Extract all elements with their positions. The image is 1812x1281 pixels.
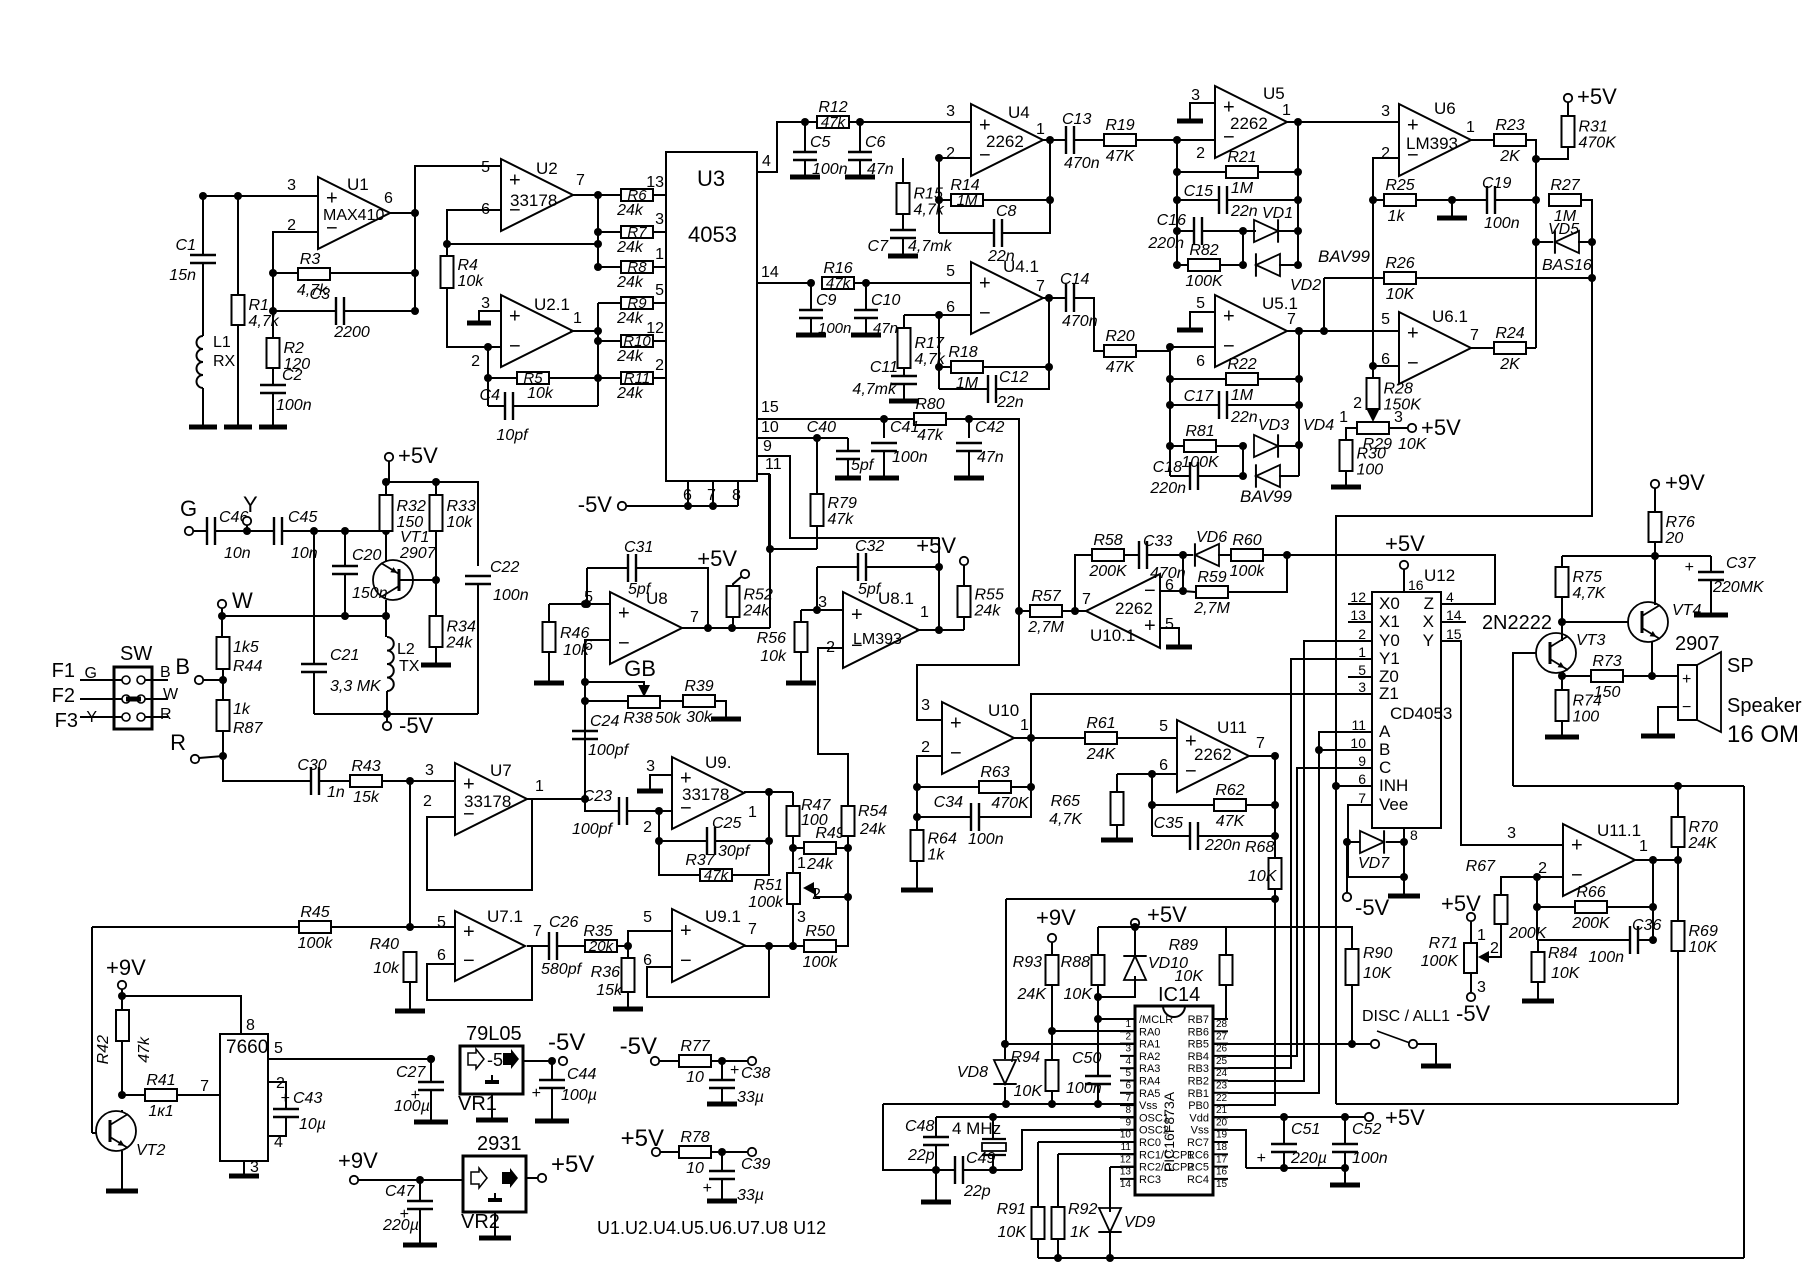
junction — [443, 240, 451, 248]
svg-text:5: 5 — [1358, 662, 1366, 678]
wire — [1417, 199, 1487, 201]
svg-text:+9V: +9V — [1665, 470, 1705, 495]
wire — [992, 1117, 994, 1139]
svg-text:U12: U12 — [1424, 566, 1455, 585]
wire VT3 base — [1513, 653, 1536, 786]
wire — [121, 1041, 123, 1095]
svg-text:7660: 7660 — [226, 1037, 268, 1058]
wire — [883, 419, 885, 438]
wire to U6.1 pin5 — [1324, 330, 1399, 332]
wire — [385, 616, 387, 637]
junction — [1131, 923, 1139, 931]
svg-text:3: 3 — [1394, 409, 1403, 426]
resistor R61 — [1085, 732, 1117, 744]
svg-text:U2.1: U2.1 — [534, 295, 570, 314]
capacitor C39 — [709, 1170, 735, 1172]
svg-text:Vee: Vee — [1379, 795, 1408, 814]
wire — [1118, 737, 1177, 739]
wire stub PB0 — [1213, 1104, 1228, 1106]
svg-text:R78: R78 — [680, 1129, 709, 1146]
terminal +5V R55 — [960, 557, 968, 565]
junction — [581, 795, 589, 803]
wire — [1063, 610, 1087, 612]
junction — [1166, 442, 1174, 450]
wire U4.1 inverting — [904, 314, 971, 316]
svg-text:2: 2 — [643, 819, 652, 836]
wire — [1259, 171, 1298, 173]
junction — [1027, 783, 1035, 791]
svg-text:50k: 50k — [655, 710, 682, 727]
diode VD8 — [994, 1060, 1016, 1084]
svg-text:3: 3 — [1358, 679, 1366, 695]
wire — [618, 945, 628, 947]
svg-text:3: 3 — [425, 762, 434, 779]
capacitor C45 — [273, 517, 275, 545]
svg-text:24K: 24K — [1017, 986, 1048, 1003]
wiper arrow R28/R29 — [1372, 409, 1374, 418]
capacitor C5 — [793, 151, 817, 153]
junction — [341, 612, 349, 620]
wire — [199, 756, 223, 758]
wire stub RB2 — [1213, 1080, 1228, 1082]
wire — [330, 272, 415, 274]
svg-text:1: 1 — [797, 855, 806, 872]
wire — [344, 310, 415, 312]
ground — [796, 333, 826, 338]
wire — [121, 1110, 123, 1112]
svg-text:27: 27 — [1216, 1031, 1228, 1042]
svg-text:+5V: +5V — [1385, 1105, 1425, 1130]
diode VD3 — [1254, 435, 1278, 457]
wire — [1403, 842, 1405, 877]
svg-text:R1: R1 — [249, 297, 269, 314]
svg-text:Vss: Vss — [1191, 1125, 1210, 1137]
svg-text:33178: 33178 — [682, 785, 729, 804]
junction — [427, 1055, 435, 1063]
wire — [202, 196, 204, 255]
svg-text:R76: R76 — [1666, 514, 1695, 531]
junction — [807, 279, 815, 287]
svg-text:R82: R82 — [1189, 242, 1218, 259]
svg-text:100n: 100n — [1352, 1150, 1388, 1167]
svg-text:15k: 15k — [596, 982, 623, 999]
resistor R14 — [951, 194, 983, 206]
wire — [721, 1152, 723, 1171]
svg-text:10: 10 — [686, 1069, 704, 1086]
capacitor C4 — [504, 392, 506, 420]
svg-text:2: 2 — [946, 145, 955, 162]
capacitor C17 — [1218, 391, 1220, 419]
wire U8 output — [682, 627, 770, 629]
svg-text:R67: R67 — [1466, 858, 1496, 875]
wire U12 A — [1319, 732, 1372, 750]
svg-text:G: G — [180, 496, 197, 521]
capacitor C40 — [836, 450, 860, 452]
wire U12 Z0 — [1348, 676, 1372, 678]
svg-text:2K: 2K — [1499, 356, 1521, 373]
wire — [715, 701, 726, 718]
wire — [1218, 554, 1231, 556]
wire — [1097, 1019, 1099, 1076]
ground — [224, 425, 252, 430]
terminal +9V VT4 — [1651, 480, 1659, 488]
wire stub Vss — [1120, 1104, 1135, 1106]
wire — [1097, 985, 1099, 1019]
wire U9 output — [744, 791, 793, 793]
svg-text:1M: 1M — [1231, 180, 1254, 197]
wire — [383, 780, 455, 782]
resistor R58 — [1092, 549, 1124, 561]
svg-text:R66: R66 — [1576, 884, 1605, 901]
svg-text:DISC / ALL1: DISC / ALL1 — [1362, 1008, 1450, 1025]
wire — [221, 608, 223, 637]
wire — [712, 1060, 748, 1062]
wire R60 to U12 Z — [1264, 555, 1495, 604]
junction — [218, 612, 226, 620]
svg-text:C27: C27 — [396, 1064, 426, 1081]
junction — [789, 844, 797, 852]
svg-text:SP: SP — [1727, 655, 1754, 677]
svg-text:C52: C52 — [1352, 1121, 1381, 1138]
wire — [1177, 171, 1225, 173]
svg-text:20: 20 — [1665, 530, 1684, 547]
junction — [1166, 401, 1174, 409]
wire U1 output — [390, 212, 415, 214]
wire — [585, 799, 619, 811]
junction — [199, 192, 207, 200]
wire — [817, 566, 858, 568]
ground — [889, 399, 919, 404]
svg-text:R56: R56 — [757, 630, 786, 647]
svg-text:26: 26 — [1216, 1044, 1228, 1055]
junction — [624, 942, 632, 950]
resistor R32 — [380, 495, 393, 531]
wire — [1345, 471, 1347, 486]
wire — [1074, 298, 1103, 351]
capacitor C48 — [923, 1136, 949, 1138]
wire R23 to column — [1527, 140, 1536, 348]
svg-text:C23: C23 — [583, 788, 612, 805]
junction — [1046, 196, 1054, 204]
junction — [1283, 551, 1291, 559]
capacitor C3 — [335, 297, 337, 325]
junction — [1648, 672, 1656, 680]
wire — [732, 617, 734, 628]
capacitor C19 — [1486, 186, 1488, 214]
wire — [410, 926, 455, 928]
wire right loop — [1743, 786, 1745, 1258]
svg-text:100K: 100K — [1185, 273, 1224, 290]
wire U5.1 inverting — [1170, 346, 1215, 348]
svg-text:3: 3 — [646, 758, 655, 775]
svg-text:C5: C5 — [810, 134, 831, 151]
ground — [479, 1236, 511, 1241]
capacitor C41 — [871, 442, 897, 444]
wire — [658, 811, 660, 841]
svg-text:X1: X1 — [1379, 612, 1400, 631]
resistor R64 — [911, 830, 924, 861]
wire VT2 emitter — [121, 1151, 123, 1190]
junction — [1532, 238, 1540, 246]
svg-text:24k: 24k — [446, 635, 474, 652]
junction — [243, 527, 251, 535]
svg-text:100n: 100n — [276, 397, 312, 414]
ground — [786, 681, 816, 686]
svg-text:C21: C21 — [330, 647, 359, 664]
wire — [847, 459, 849, 477]
junction — [432, 576, 440, 584]
svg-text:24k: 24k — [616, 274, 644, 291]
svg-text:RB7: RB7 — [1188, 1014, 1209, 1026]
wire +5V row to R90 — [1226, 927, 1352, 949]
svg-text:C34: C34 — [934, 794, 963, 811]
wire U12 pin16 — [1403, 569, 1405, 592]
svg-text:R73: R73 — [1592, 653, 1621, 670]
wire U12 B — [1319, 749, 1372, 751]
wire U12 Y0 — [1348, 640, 1372, 642]
resistor R27 — [1549, 194, 1581, 206]
wire — [385, 482, 387, 495]
svg-text:U5: U5 — [1263, 84, 1285, 103]
op-amp U11.1 — [1563, 824, 1635, 896]
wire — [319, 780, 350, 782]
wire — [1417, 277, 1592, 279]
wire — [1283, 1152, 1285, 1168]
svg-text:R43: R43 — [351, 758, 380, 775]
svg-text:C40: C40 — [807, 419, 836, 436]
op-amp U6.1 — [1399, 312, 1471, 384]
resistor R60 — [1231, 549, 1263, 561]
junction — [1649, 856, 1657, 864]
terminal +9V VR2 — [350, 1176, 358, 1184]
wire feedback — [447, 243, 598, 245]
svg-text:22: 22 — [1216, 1093, 1228, 1104]
svg-text:RX: RX — [213, 353, 236, 370]
capacitor C26 — [548, 932, 550, 960]
wire to RA1 — [1005, 899, 1007, 1044]
svg-text:SW: SW — [120, 643, 152, 665]
ground — [954, 476, 984, 481]
wire stub RC0 — [1120, 1141, 1135, 1143]
wire — [627, 810, 672, 812]
svg-text:8: 8 — [1410, 827, 1418, 843]
svg-text:5: 5 — [1159, 718, 1168, 735]
svg-text:+5V: +5V — [697, 546, 737, 571]
wire U2.1 output — [570, 330, 598, 332]
svg-text:100n: 100n — [892, 449, 928, 466]
wire — [1037, 1239, 1039, 1258]
op-amp U8.1 — [843, 592, 919, 668]
svg-text:12: 12 — [1120, 1154, 1132, 1165]
ground — [1166, 645, 1192, 650]
svg-text:Y: Y — [1423, 631, 1434, 650]
svg-text:10pf: 10pf — [496, 427, 529, 444]
junction — [1173, 168, 1181, 176]
svg-text:R54: R54 — [858, 803, 887, 820]
wire — [721, 1088, 723, 1103]
resistor R24 — [1494, 342, 1526, 354]
wire — [1170, 378, 1225, 380]
svg-text:22n: 22n — [1230, 409, 1258, 426]
ground — [707, 1199, 737, 1204]
wire R92 top — [1057, 1154, 1059, 1207]
wire U11 pin6 — [1152, 773, 1177, 775]
svg-text:F3: F3 — [55, 710, 78, 732]
capacitor C27 — [418, 1081, 444, 1083]
svg-text:R24: R24 — [1495, 325, 1524, 342]
capacitor C14 — [1065, 284, 1067, 312]
junction — [1048, 1100, 1056, 1108]
wire — [801, 609, 817, 611]
svg-text:470K: 470K — [1579, 135, 1618, 152]
svg-text:13: 13 — [646, 174, 664, 191]
junction — [219, 676, 227, 684]
svg-text:U2: U2 — [536, 159, 558, 178]
wire — [549, 377, 598, 379]
svg-text:1: 1 — [573, 310, 582, 327]
svg-text:13: 13 — [1350, 607, 1366, 623]
op-amp U5 — [1215, 86, 1287, 158]
wire U2.1 noninverting — [479, 311, 501, 321]
svg-text:24K: 24K — [1688, 835, 1719, 852]
svg-text:3: 3 — [1125, 1044, 1131, 1055]
resistor R84 — [1532, 952, 1545, 982]
wire — [1470, 973, 1472, 993]
resistor R76 — [1649, 512, 1662, 542]
svg-text:RA2: RA2 — [1139, 1051, 1160, 1063]
svg-text:R14: R14 — [950, 177, 979, 194]
wire RB5 row — [1213, 1043, 1371, 1045]
junction — [1294, 118, 1302, 126]
svg-text:C7: C7 — [868, 238, 890, 255]
wire — [855, 282, 971, 284]
svg-text:U9.: U9. — [705, 753, 731, 772]
wire — [385, 531, 387, 562]
svg-text:100k: 100k — [1230, 563, 1266, 580]
wire — [939, 232, 994, 234]
svg-text:R59: R59 — [1197, 569, 1226, 586]
wire — [1537, 939, 1630, 941]
svg-text:VT3: VT3 — [1576, 632, 1605, 649]
capacitor C11 — [891, 375, 917, 377]
ground — [229, 1174, 259, 1179]
wire — [1151, 774, 1153, 836]
ground — [467, 321, 491, 326]
wire — [865, 318, 867, 334]
junction — [1315, 746, 1323, 754]
junction — [1015, 607, 1023, 615]
svg-text:U3: U3 — [697, 166, 725, 191]
wire — [1242, 231, 1244, 265]
svg-text:200K: 200K — [1088, 563, 1128, 580]
junction — [913, 783, 921, 791]
capacitor C42 — [956, 442, 982, 444]
resistor R91 — [1032, 1207, 1045, 1239]
transistor VT3 — [1536, 633, 1576, 673]
svg-text:33178: 33178 — [464, 792, 511, 811]
wire — [1229, 555, 1287, 592]
svg-text:R42: R42 — [95, 1035, 112, 1064]
junction — [1674, 856, 1682, 864]
svg-text:1: 1 — [1282, 102, 1291, 119]
op-amp U1 triangle — [318, 177, 390, 249]
wire — [598, 377, 621, 379]
wire — [1279, 230, 1298, 232]
svg-text:C8: C8 — [996, 203, 1017, 220]
svg-text:+: + — [1682, 671, 1691, 688]
junction — [1320, 327, 1328, 335]
wire stub RC2/CCP2 — [1120, 1166, 1135, 1168]
svg-text:Y: Y — [243, 492, 258, 517]
junction — [862, 279, 870, 287]
svg-text:+5V: +5V — [1147, 902, 1187, 927]
resistor R3 — [298, 268, 330, 280]
junction — [1588, 274, 1596, 282]
resistor R36 — [622, 958, 635, 992]
junction — [932, 1166, 940, 1174]
svg-text:16 OM: 16 OM — [1727, 721, 1799, 748]
svg-text:R58: R58 — [1093, 532, 1122, 549]
junction — [594, 228, 602, 236]
svg-text:4,7k: 4,7k — [249, 313, 280, 330]
svg-text:R61: R61 — [1086, 715, 1115, 732]
wire — [1242, 446, 1244, 476]
svg-text:R90: R90 — [1363, 945, 1392, 962]
wire stub Vdd — [1213, 1116, 1228, 1118]
svg-text:RC2/CCP2: RC2/CCP2 — [1139, 1162, 1193, 1174]
resistor R43 — [350, 775, 382, 787]
wire U4 output — [1043, 139, 1066, 141]
wire — [903, 384, 905, 400]
terminal +5V Vdd — [1365, 1113, 1373, 1121]
svg-text:1: 1 — [1639, 838, 1648, 855]
op-amp U2.1 — [501, 295, 573, 367]
svg-text:10K: 10K — [1689, 939, 1719, 956]
svg-text:15k: 15k — [353, 789, 380, 806]
wire R80 to R57 — [947, 419, 1019, 611]
svg-text:+: + — [730, 1062, 739, 1079]
wire — [1152, 835, 1190, 837]
svg-text:C48: C48 — [905, 1118, 934, 1135]
wire RA0 — [1052, 1030, 1135, 1032]
svg-text:1M: 1M — [957, 192, 978, 209]
svg-text:79L05: 79L05 — [466, 1023, 522, 1045]
junction — [1649, 903, 1657, 911]
wire — [1677, 860, 1679, 921]
wire — [1638, 939, 1653, 941]
capacitor C7 — [890, 229, 916, 231]
svg-text:C49: C49 — [966, 1150, 995, 1167]
terminal +5V R71 — [1467, 913, 1475, 921]
wire stub RA3 — [1120, 1067, 1135, 1069]
wire switch lead — [145, 716, 168, 718]
terminal +5V VT1 — [385, 453, 393, 461]
wire — [584, 739, 586, 799]
wire to R37 — [659, 841, 699, 875]
svg-text:10K: 10K — [1248, 868, 1278, 885]
junction — [1674, 782, 1682, 790]
resistor R50 — [804, 940, 836, 952]
wire C43 to pin4 — [268, 1117, 286, 1136]
svg-text:6: 6 — [1125, 1081, 1131, 1092]
op-amp U11 — [1177, 720, 1249, 792]
op-amp U8 — [610, 592, 682, 664]
junction — [1294, 196, 1302, 204]
svg-text:2262: 2262 — [1194, 745, 1232, 764]
IC U12 CD4053 — [1372, 592, 1441, 828]
svg-text:/MCLR: /MCLR — [1139, 1014, 1173, 1026]
wire — [1536, 877, 1538, 940]
